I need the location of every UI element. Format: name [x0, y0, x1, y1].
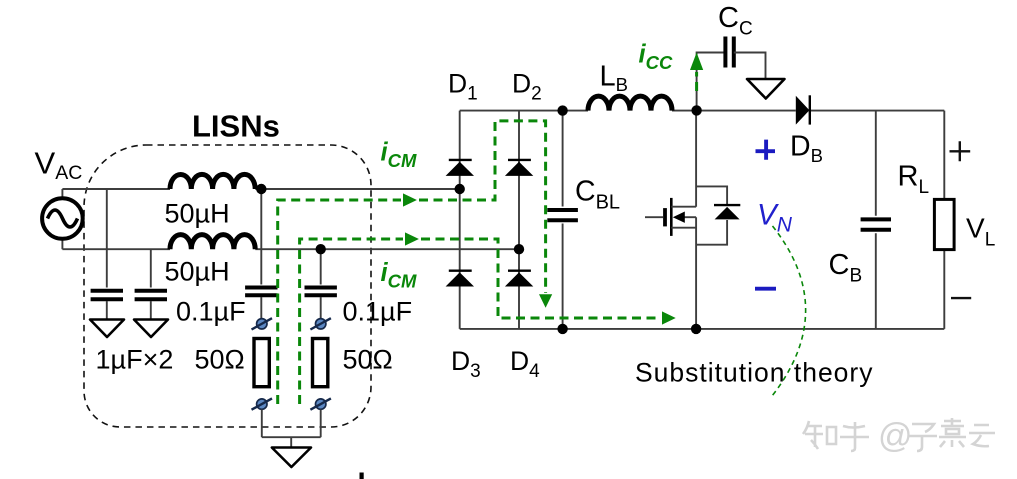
wire: drain stub: [671, 206, 696, 208]
capacitor 1uF (a): [91, 291, 123, 300]
svg-text:@: @: [878, 417, 913, 455]
connector (BNC) lower B: [310, 398, 331, 409]
watermark zhihu: [803, 418, 995, 451]
wire: AC bottom line: [62, 248, 519, 250]
inductor L_B: [588, 96, 672, 111]
ground: chassis triangle a: [90, 320, 124, 338]
svg-text:0.1µF: 0.1µF: [176, 297, 246, 327]
label plus output: [950, 141, 971, 161]
wire: 0.1uF branch B vertical: [320, 249, 322, 284]
wire: i_CC green arrow: [695, 72, 698, 91]
connector (BNC) upper B: [310, 318, 331, 329]
svg-text:50µH: 50µH: [165, 199, 230, 229]
wire: to ground b: [150, 301, 152, 319]
LISN dashed boundary box: [84, 145, 371, 427]
svg-text:1µF×2: 1µF×2: [96, 345, 174, 375]
mosfet channel bar: [670, 198, 673, 236]
wire: R_L leg: [943, 111, 945, 329]
svg-text:50Ω: 50Ω: [343, 345, 393, 375]
body diode loop: [696, 186, 727, 244]
connector (BNC) lower A: [252, 398, 273, 409]
label minus V_N blue: [755, 287, 776, 291]
wire: bridge rails: [460, 110, 945, 112]
wire: i_CM green path 1: [278, 200, 401, 404]
source V_AC: [42, 198, 83, 239]
cropped text mark bottom: [360, 473, 364, 479]
svg-text:Substitution theory: Substitution theory: [635, 358, 874, 388]
svg-text:LISNs: LISNs: [192, 109, 280, 144]
wire: substitution-theory callout curve: [772, 226, 806, 396]
wire: source stub: [671, 227, 696, 229]
resistor 50ohm (B): [313, 339, 328, 387]
svg-text:0.1µF: 0.1µF: [343, 297, 413, 327]
mosfet substrate arrow: [683, 216, 696, 218]
body diode: [714, 204, 740, 206]
diode D1: [446, 160, 474, 176]
ground: C_C earth triangle: [747, 79, 785, 99]
ground: chassis triangle b: [134, 320, 168, 338]
resistor 50ohm (A): [254, 339, 269, 387]
connector (BNC) upper A: [252, 318, 273, 329]
capacitor C_BL: [562, 111, 564, 329]
wire: D1/D3 leg: [459, 111, 461, 329]
inductor 50uH top: [170, 174, 255, 189]
wire: LISN ground bus: [262, 437, 321, 447]
wire: i_CM green path 2: [300, 239, 403, 404]
wire: D2/D4 leg: [518, 111, 520, 329]
label minus output: [951, 297, 971, 299]
diode D2: [505, 160, 533, 176]
wire: bottom rail: [460, 328, 945, 330]
wire: cap B to connector: [320, 297, 322, 318]
node: junction dots: [256, 184, 266, 194]
resistor R_L: [934, 199, 954, 249]
wire: AC top line: [62, 188, 459, 190]
wire: gate lead: [645, 216, 663, 218]
wire: drain vertical: [695, 111, 697, 329]
capacitor 0.1uF (A): [245, 288, 277, 296]
svg-text:50Ω: 50Ω: [195, 345, 245, 375]
mosfet gate bar: [663, 208, 667, 226]
ground: LISN earth triangle: [272, 448, 311, 468]
wire: source stubs: [61, 189, 63, 249]
label plus V_N blue: [756, 140, 776, 160]
wire: branch B down: [320, 410, 322, 438]
wire: 1uF branch 1 vertical: [106, 189, 108, 288]
MOSFET Q (with body diode): [645, 111, 740, 329]
wire: C_C riser: [697, 53, 725, 111]
diode D3: [446, 271, 474, 287]
diode D_B: [796, 95, 810, 124]
capacitor 0.1uF (B): [305, 288, 337, 296]
wire: to ground a: [106, 301, 108, 319]
capacitor 1uF (b): [135, 291, 167, 300]
diode D4: [505, 271, 533, 287]
wire: cap A to connector: [260, 297, 262, 318]
wire: C_C to ground: [734, 53, 766, 79]
capacitor C_C: [725, 37, 733, 68]
capacitor C_B: [875, 111, 877, 329]
wire: 1uF branch 2 vertical: [150, 249, 152, 287]
svg-text:50µH: 50µH: [165, 257, 230, 287]
inductor 50uH bottom: [170, 235, 255, 250]
wire: branch A down: [261, 410, 263, 438]
wire: 0.1uF branch A vertical: [260, 189, 262, 285]
